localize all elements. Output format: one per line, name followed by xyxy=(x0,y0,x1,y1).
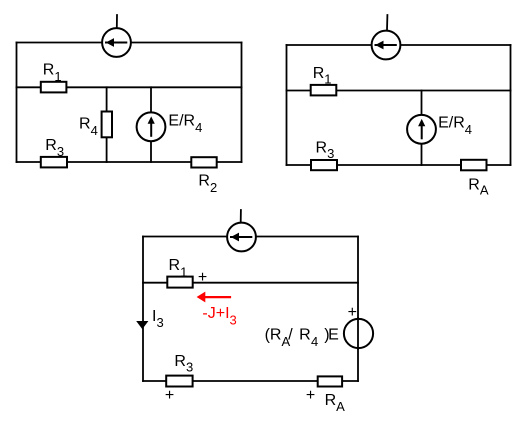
wire: C3 middle (R1 branch) xyxy=(143,282,358,284)
wire: C1 top xyxy=(17,42,242,44)
resistor RA (C3) xyxy=(318,376,342,386)
resistor R1 (C2) xyxy=(311,85,337,96)
svg-text:R3: R3 xyxy=(45,137,64,159)
wire: C1 E/R4 branch xyxy=(150,87,152,162)
resistor R1 (C3) xyxy=(167,277,192,288)
svg-text:+: + xyxy=(165,387,174,404)
current source J (C1) xyxy=(102,28,131,57)
resistor R2 (C1) xyxy=(191,157,216,167)
wire: C2 top xyxy=(287,44,511,46)
resistor R3 (C1) xyxy=(41,157,67,168)
current source J (C2) xyxy=(372,31,401,60)
svg-text:R2: R2 xyxy=(198,173,217,195)
current source E/R4 (C1) xyxy=(137,112,166,141)
svg-text:RA: RA xyxy=(468,176,489,197)
voltage source (RA/R4)E (C3) xyxy=(344,319,373,348)
svg-text:I3: I3 xyxy=(152,308,164,330)
svg-text:+: + xyxy=(306,387,315,404)
current source J (C2): lead tick xyxy=(386,15,388,30)
svg-text:R1: R1 xyxy=(313,65,332,87)
wire: C1 right xyxy=(241,43,243,163)
current source J (C1): lead tick xyxy=(116,15,118,28)
wire: through voltage source xyxy=(357,318,359,349)
svg-text:-J+I3: -J+I3 xyxy=(202,305,236,328)
resistor R1 (C1) xyxy=(41,82,67,93)
wire: C2 bottom xyxy=(287,164,511,166)
svg-text:(RA/R4)E: (RA/R4)E xyxy=(265,327,339,349)
wire: C2 middle (R1 branch) xyxy=(287,90,511,92)
resistor R4 (C1, vertical) xyxy=(102,112,112,138)
svg-text:R4: R4 xyxy=(79,116,98,138)
resistor RA (C2) xyxy=(461,160,487,171)
current source J (C3) xyxy=(227,223,256,252)
current source E/R4 (C2) xyxy=(407,115,436,144)
svg-text:R1: R1 xyxy=(43,62,62,84)
wire: C2 E/R4 branch xyxy=(421,91,423,166)
svg-text:RA: RA xyxy=(325,392,346,414)
wire: C2 right xyxy=(510,45,512,165)
svg-text:E/R4: E/R4 xyxy=(168,113,202,135)
svg-text:+: + xyxy=(198,269,207,286)
wire: C3 bottom xyxy=(143,380,358,382)
svg-text:E/R4: E/R4 xyxy=(438,115,472,137)
resistor R3 (C2) xyxy=(311,160,337,170)
current arrow I3 (on C3 left wire, downward) xyxy=(136,321,148,329)
current source J (C3): lead tick xyxy=(240,210,242,222)
svg-text:R3: R3 xyxy=(174,353,193,375)
wire: C1 middle (R1 branch) xyxy=(17,86,242,88)
svg-text:+: + xyxy=(348,304,357,321)
wire: C3 top xyxy=(143,236,358,238)
svg-text:R3: R3 xyxy=(316,140,335,162)
resistor R3 (C3) xyxy=(166,376,192,387)
current arrow -J+I3 (red) xyxy=(197,292,230,303)
wire: C2 left xyxy=(286,45,288,165)
wire: C1 R4 branch xyxy=(106,87,108,162)
wire: C1 left xyxy=(16,43,18,163)
wire: C1 bottom xyxy=(17,161,242,163)
wire: C3 right xyxy=(357,237,359,382)
wire: C3 left xyxy=(142,237,144,382)
